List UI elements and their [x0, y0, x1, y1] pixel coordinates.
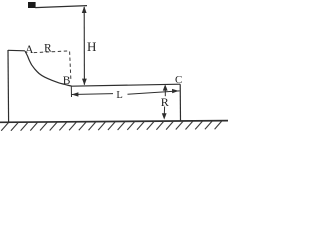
- svg-text:L: L: [116, 90, 122, 101]
- ledge: short horizontal line from wall to A: [8, 49, 25, 52]
- wire: top horizontal line from block to H dimension: [35, 6, 87, 8]
- ramp: quarter-circle arc from A to B: [25, 51, 72, 86]
- dimension H vertical line: [83, 7, 85, 85]
- dimension R vertical line (table height) with up arrowhead: [163, 84, 168, 90]
- arrowhead up (top of H line): [82, 6, 87, 13]
- dimension R lower segment with down arrowhead: [163, 107, 165, 116]
- extension line below B for L dimension: [70, 86, 72, 97]
- svg-text:R: R: [44, 43, 52, 55]
- surface: horizontal line from B to C: [71, 84, 180, 86]
- svg-text:C: C: [175, 74, 182, 86]
- svg-text:H: H: [87, 39, 96, 54]
- block (black square on top ledge): [28, 2, 36, 8]
- table edge: right vertical line from C down to ground: [179, 84, 181, 121]
- wall: left vertical line: [7, 50, 10, 122]
- dimension L line right segment with right arrowhead: [128, 91, 180, 94]
- dimension L line left segment with left arrowhead: [72, 93, 114, 96]
- svg-text:B: B: [63, 75, 71, 87]
- dashed radius line horizontal A to corner: [34, 51, 70, 53]
- ground line: [0, 121, 228, 123]
- dashed radius line vertical corner down to B: [70, 52, 71, 81]
- ground hatching: [1, 121, 222, 131]
- arrowhead down (bottom of H line): [82, 79, 87, 86]
